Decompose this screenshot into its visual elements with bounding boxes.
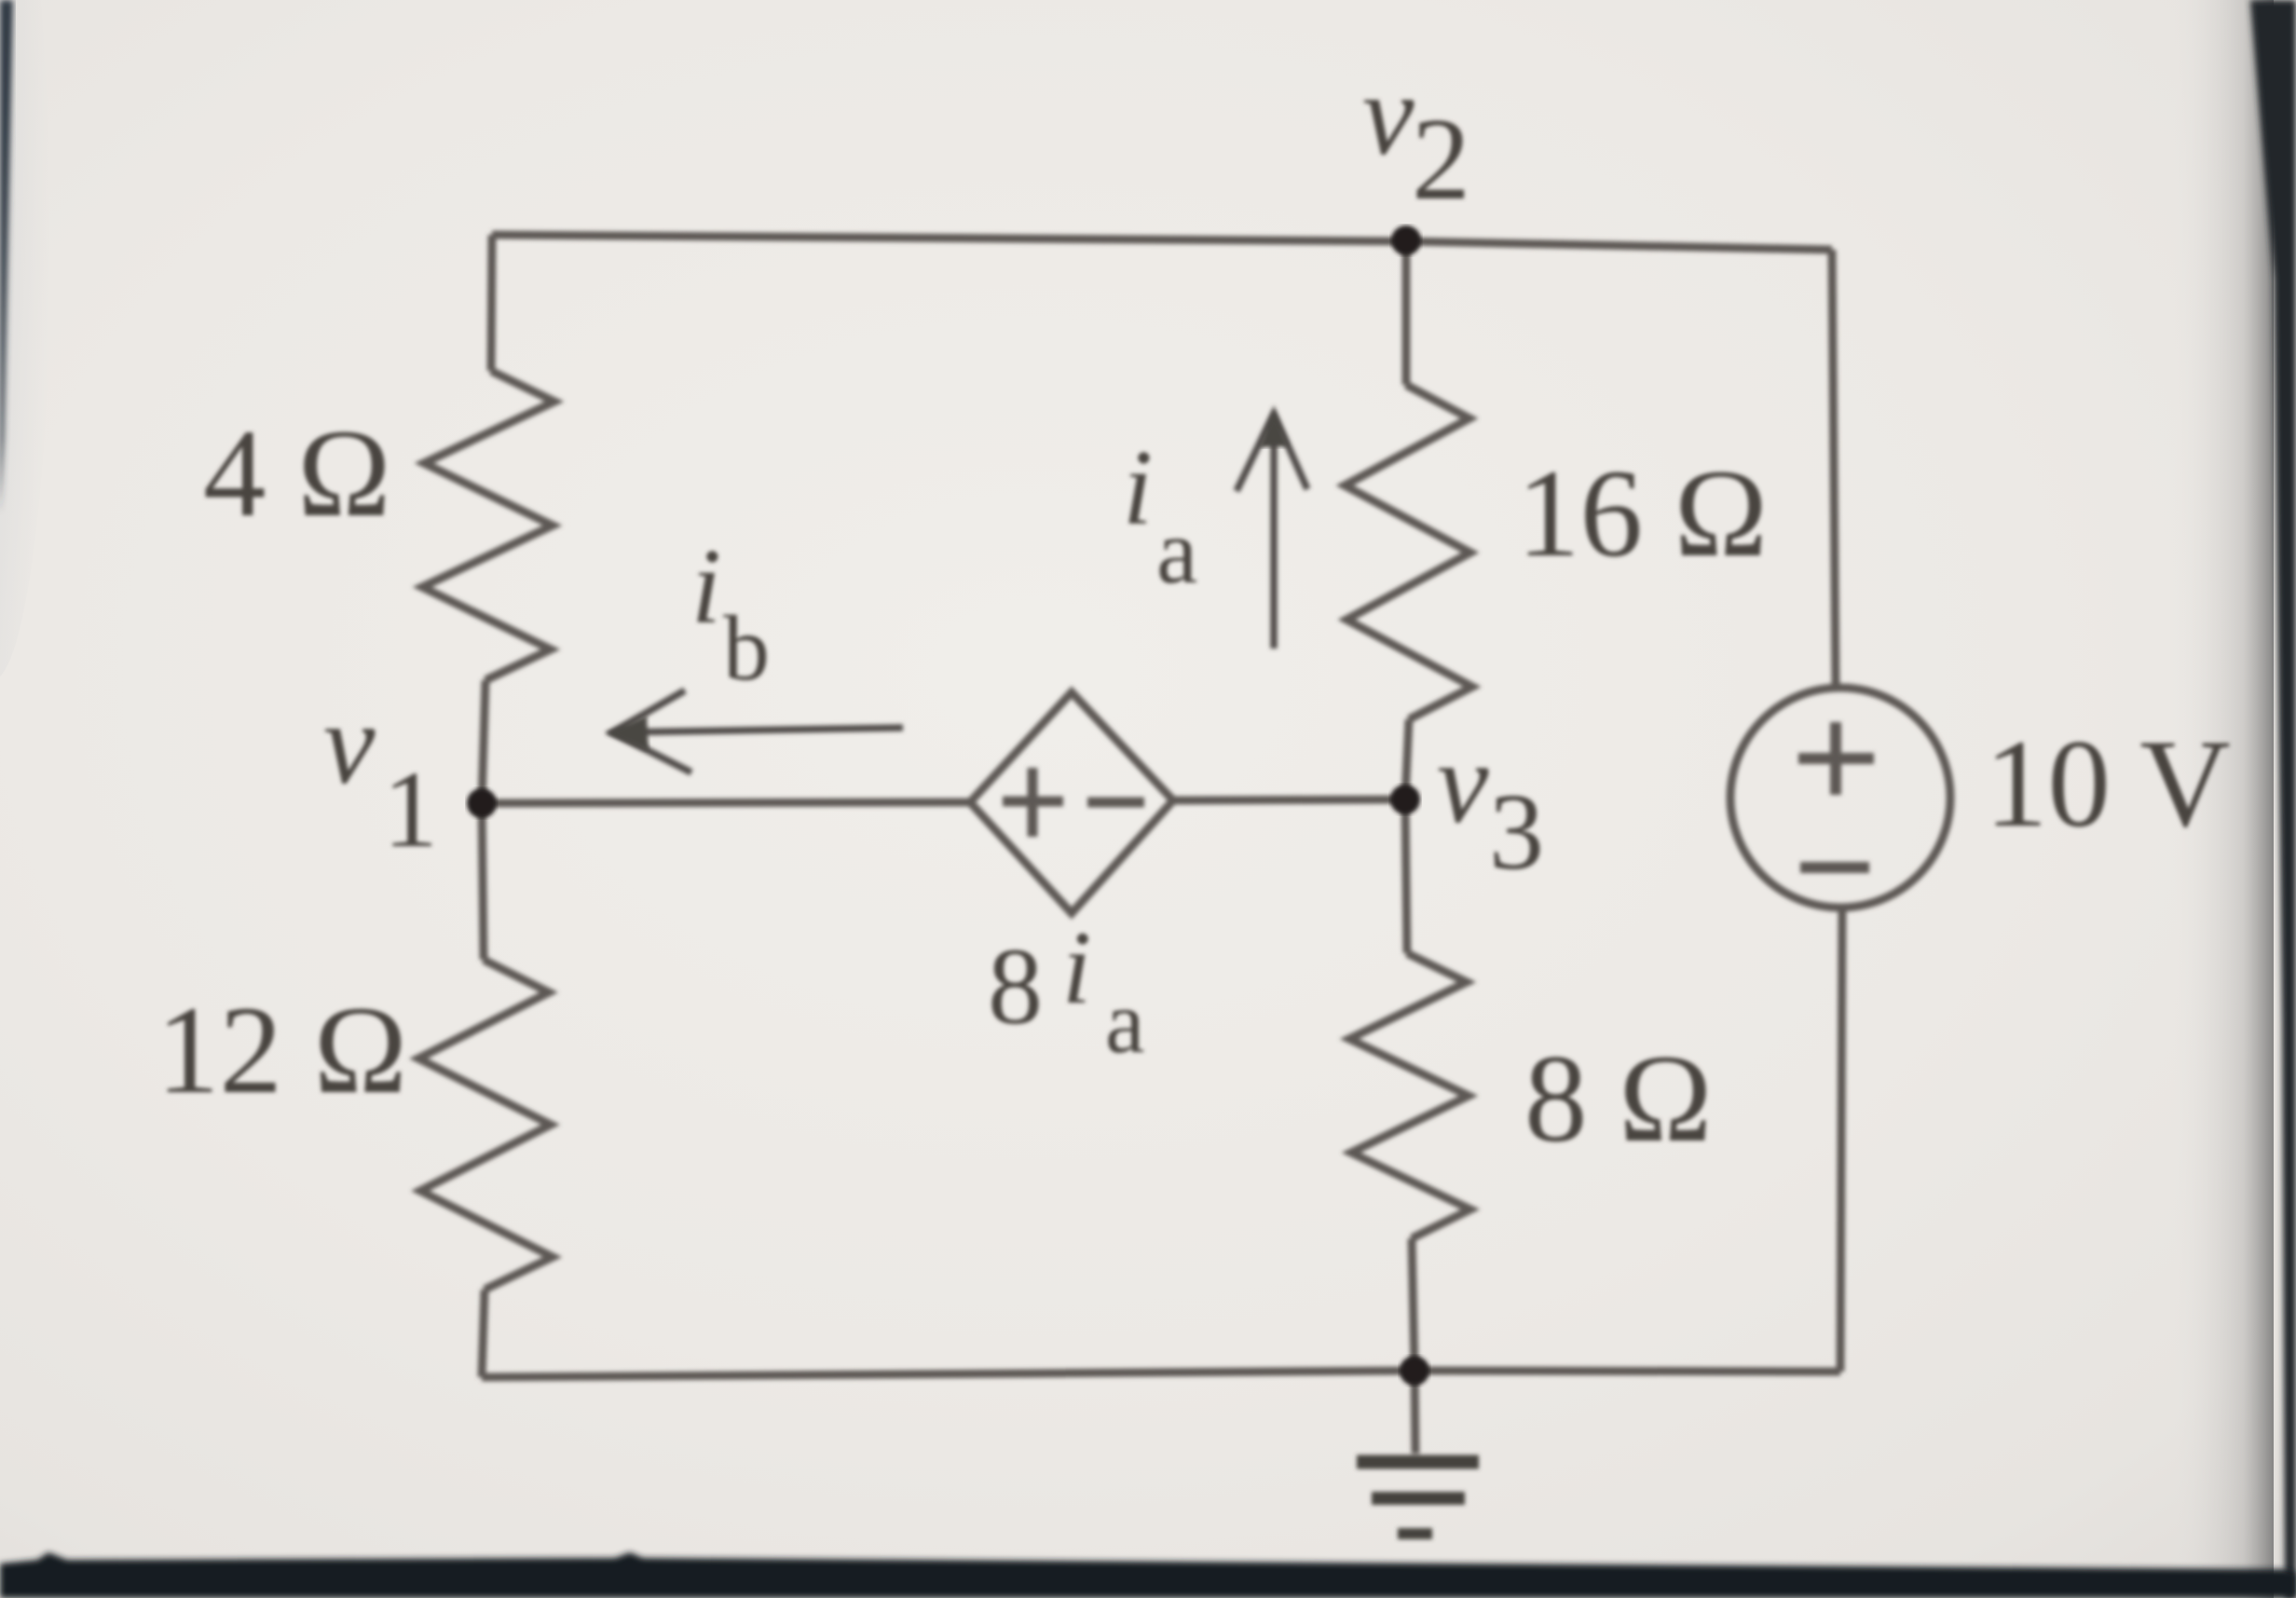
svg-text:i: i — [691, 527, 721, 646]
wire bottom — [482, 1371, 1840, 1377]
svg-text:v: v — [323, 680, 376, 809]
ground stub — [1414, 1371, 1415, 1454]
ground bars — [1357, 1455, 1479, 1469]
left dark screen edge — [0, 0, 13, 512]
wire 8ohm to bottom node — [1412, 1238, 1414, 1371]
wire 4ohm to v1 — [482, 680, 485, 803]
current arrow ia — [1237, 414, 1307, 649]
node dot ground — [1400, 1356, 1429, 1386]
minus sign in diamond — [1087, 798, 1144, 808]
svg-text:12 Ω: 12 Ω — [157, 981, 407, 1120]
wire v1 to 12ohm — [482, 803, 484, 960]
dependent source 8ia diamond — [970, 692, 1173, 913]
svg-text:a: a — [1105, 972, 1145, 1072]
node dot v2 — [1391, 225, 1421, 255]
wire 16ohm to v3 — [1405, 719, 1409, 799]
resistor 4 ohm — [422, 371, 554, 680]
svg-text:16 Ω: 16 Ω — [1517, 444, 1768, 583]
svg-text:i: i — [1062, 910, 1091, 1026]
resistor 8 ohm — [1349, 953, 1470, 1238]
wire source to bottom-right corner — [1840, 908, 1842, 1372]
arrowhead fills — [1259, 411, 1289, 447]
svg-text:i: i — [1123, 429, 1153, 547]
minus sign in source — [1800, 862, 1869, 873]
voltage source 10V circle — [1730, 688, 1950, 908]
plus sign in diamond — [1003, 768, 1063, 837]
svg-text:a: a — [1156, 499, 1197, 603]
svg-text:8: 8 — [988, 925, 1043, 1047]
svg-text:10 V: 10 V — [1985, 715, 2231, 854]
svg-text:3: 3 — [1489, 771, 1544, 893]
svg-text:8 Ω: 8 Ω — [1524, 1030, 1713, 1168]
current arrow ib — [612, 690, 903, 772]
svg-text:1: 1 — [383, 748, 438, 870]
node dot v3 — [1390, 785, 1420, 814]
resistor 16 ohm — [1345, 385, 1472, 719]
right dark screen edge — [2250, 0, 2296, 1598]
wire top-right corner down to source — [1832, 250, 1836, 688]
wire left upper lead — [491, 235, 492, 371]
wire 12ohm to bottom-left corner — [482, 1290, 485, 1377]
node dot v1 — [467, 788, 497, 818]
svg-text:2: 2 — [1412, 95, 1470, 225]
svg-text:v: v — [1362, 51, 1414, 180]
wire dependent source to v3 — [1173, 799, 1405, 800]
svg-text:4 Ω: 4 Ω — [203, 404, 391, 543]
svg-text:b: b — [723, 596, 770, 700]
resistor 12 ohm — [418, 960, 553, 1290]
wire top — [492, 235, 1832, 250]
wire v3 to 8ohm — [1405, 799, 1407, 953]
wire v2 to 16ohm — [1402, 241, 1411, 385]
wire v1 to dependent source — [482, 802, 970, 803]
plus sign in source — [1798, 722, 1874, 795]
bottom dark screen edge — [0, 1552, 2296, 1598]
svg-text:v: v — [1437, 719, 1489, 848]
